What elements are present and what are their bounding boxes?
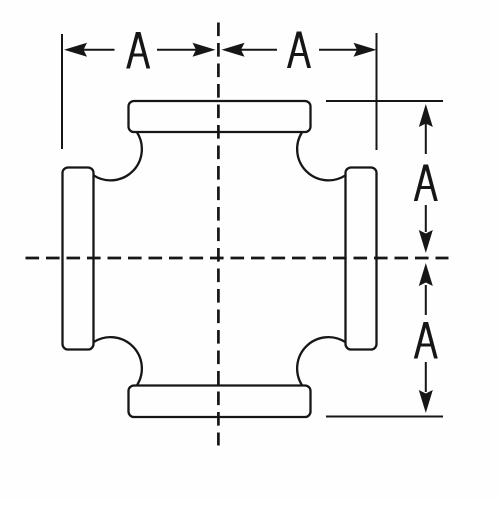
- centerline vertical: [217, 23, 220, 446]
- crotch arc top-left: [94, 132, 142, 180]
- arrowhead right to centerline (top dim seg1): [193, 43, 216, 57]
- centerline horizontal: [26, 257, 449, 260]
- arrowhead right (top dim seg2): [354, 43, 377, 57]
- bottom band: [129, 386, 311, 418]
- dimension shafts right: [425, 122, 427, 392]
- label A top-right: [287, 32, 311, 69]
- crotch arc bottom-right: [297, 337, 345, 385]
- label A right-lower: [414, 322, 438, 359]
- right band: [346, 168, 377, 350]
- arrowhead down (right dim seg2): [419, 390, 433, 413]
- label A right-upper: [414, 165, 438, 202]
- label A top-left: [126, 32, 150, 69]
- extension line left: [61, 34, 63, 149]
- extension line right vertical: [376, 33, 378, 150]
- arrowhead up (right dim seg2): [419, 263, 433, 286]
- arrowhead left from centerline (top dim seg2): [222, 43, 245, 57]
- left band: [63, 168, 94, 350]
- arrowhead up (right dim seg1): [419, 104, 433, 127]
- arrowhead left (top dim seg1): [64, 43, 87, 57]
- top band: [129, 101, 311, 132]
- crotch arc bottom-left: [94, 337, 142, 385]
- crotch arc top-right: [297, 132, 345, 180]
- arrowhead down (right dim seg1): [419, 230, 433, 253]
- dimension shafts top: [80, 49, 358, 51]
- extension line bottom horizontal: [326, 416, 443, 418]
- extension line top horizontal: [326, 100, 443, 102]
